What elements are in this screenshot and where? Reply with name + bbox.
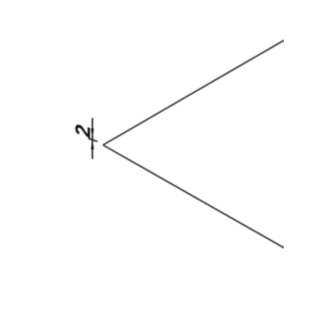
lower edge line xyxy=(103,145,284,248)
upper edge line xyxy=(103,40,284,145)
dimension line xyxy=(91,118,93,159)
arrowhead up xyxy=(91,140,94,149)
arrowhead down xyxy=(91,129,94,138)
svg-text:2: 2 xyxy=(72,123,95,139)
oblique tick xyxy=(88,138,97,141)
